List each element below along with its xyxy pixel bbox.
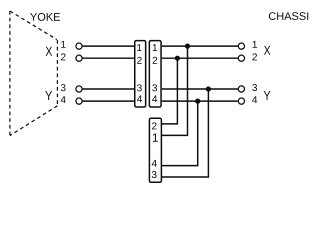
plug pin number 1 — [137, 44, 141, 51]
socket pin number 3 — [152, 84, 157, 91]
yoke pin number 2 — [61, 53, 66, 60]
yoke dashed outline top diagonal — [10, 11, 57, 40]
yoke pin number 3 — [61, 84, 66, 91]
yoke terminal circle 4 — [76, 98, 82, 104]
label YOKE — [30, 13, 60, 21]
wire yoke1 to plug — [82, 45, 134, 47]
chassis pin number 3 — [252, 84, 257, 91]
connector socket body (right) — [149, 41, 161, 107]
junction dot wire4 — [195, 99, 200, 104]
socket pin number 4 — [152, 95, 157, 102]
label Y yoke — [45, 91, 52, 100]
socket pin number 2 — [153, 57, 158, 64]
yoke terminal circle 2 — [76, 55, 82, 61]
plug pin number 2 — [137, 57, 142, 64]
wire socket1 to chassis1 — [162, 45, 239, 47]
wire socket2 to chassis2 — [162, 57, 239, 59]
wire socket3 to chassis3 — [162, 88, 239, 90]
chassis terminal circle 3 — [238, 86, 244, 92]
junction dot wire1 — [185, 44, 190, 49]
yoke pin number 4 — [61, 96, 66, 103]
jumper pin number 4 — [152, 160, 157, 167]
plug pin number 3 — [137, 84, 142, 91]
junction dot wire2 — [175, 56, 180, 61]
yoke terminal circle 3 — [76, 86, 82, 92]
jumper pin number 1 — [153, 134, 158, 142]
junction dot wire3 — [206, 86, 211, 91]
wire jumper pin3 stub and riser — [162, 89, 209, 177]
wire yoke4 to plug — [82, 100, 134, 102]
label X yoke — [46, 47, 52, 56]
wire jumper pin1 stub and riser — [162, 46, 188, 135]
chassis terminal circle 4 — [238, 98, 244, 104]
wire yoke2 to plug — [82, 57, 134, 59]
label Y chassis — [264, 91, 271, 100]
wire socket4 to chassis4 — [162, 100, 239, 102]
chassis pin number 4 — [252, 96, 257, 103]
yoke terminal circle 1 — [76, 43, 82, 49]
label CHASSI — [269, 12, 308, 20]
chassis pin number 2 — [252, 53, 257, 60]
yoke dashed outline bottom diagonal — [10, 106, 58, 136]
yoke dashed outline left vertical — [9, 11, 11, 136]
yoke dashed outline right vertical — [56, 40, 58, 106]
jumper pin number 3 — [152, 171, 157, 178]
yoke pin number 1 — [61, 41, 65, 48]
wire jumper pin4 stub and riser — [162, 101, 198, 166]
wire jumper pin2 stub and riser — [162, 58, 178, 124]
wire yoke3 to plug — [82, 88, 134, 90]
chassis terminal circle 1 — [238, 43, 244, 49]
chassis pin number 1 — [253, 41, 257, 48]
plug pin number 4 — [137, 95, 142, 102]
label X chassis — [264, 46, 270, 55]
socket pin number 1 — [153, 44, 157, 51]
chassis terminal circle 2 — [238, 55, 244, 61]
jumper pin number 2 — [152, 122, 157, 129]
connector plug body (left) — [135, 41, 146, 107]
service jumper plug body (bottom) — [149, 118, 161, 182]
